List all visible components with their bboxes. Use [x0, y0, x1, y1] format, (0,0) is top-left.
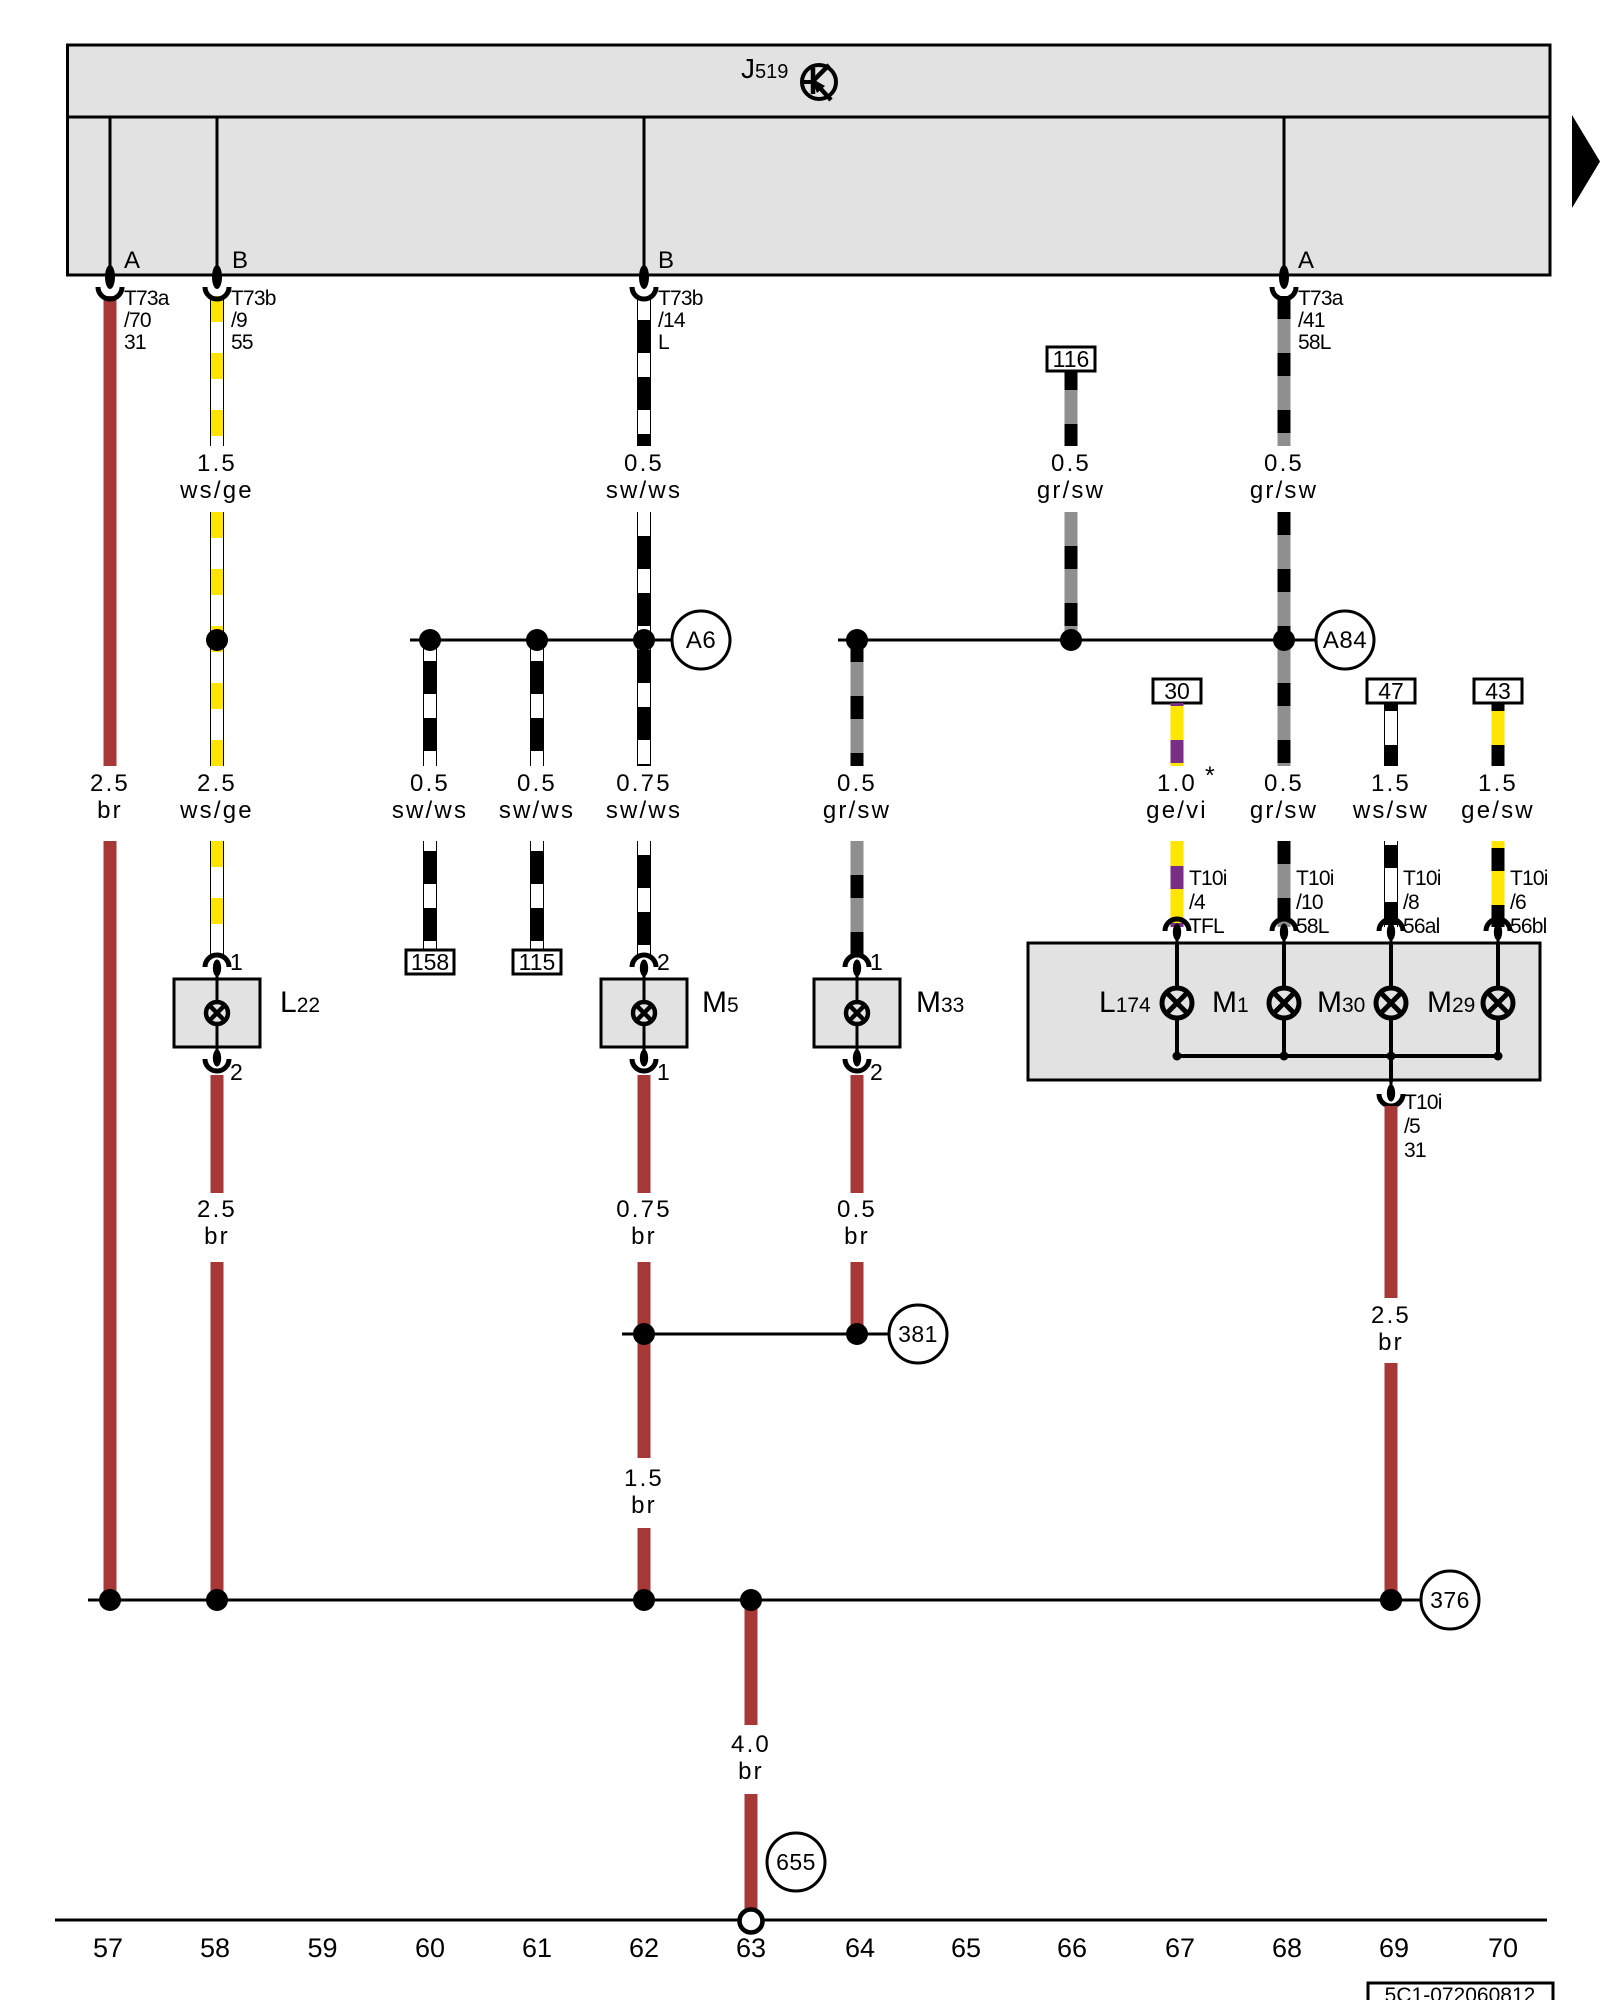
lamp symbol M29 brake light [1483, 988, 1513, 1018]
svg-text:2.5: 2.5 [197, 1196, 237, 1223]
svg-text:/10: /10 [1296, 891, 1323, 914]
svg-text:56bl: 56bl [1510, 915, 1547, 938]
ground reference circle 655 [767, 1833, 825, 1891]
diagram code box 5C1-072060812 [1368, 1983, 1553, 2005]
wire 2.5 br col69 lower [1385, 1363, 1398, 1600]
internal lead x=1177 [1175, 943, 1179, 1056]
svg-text:T10i: T10i [1189, 867, 1227, 890]
svg-text:ws/ge: ws/ge [179, 477, 254, 504]
internal lead x=1391 [1389, 943, 1393, 1056]
wire br col62 through 381 [638, 1262, 651, 1458]
svg-text:115: 115 [519, 949, 556, 975]
label T10i /10 58L [1296, 867, 1334, 938]
continuation arrow right [1572, 115, 1600, 208]
svg-text:64: 64 [845, 1933, 875, 1963]
wire 2.5 br col57 lower [104, 841, 117, 1600]
junction dot A6 at col60 [419, 629, 441, 651]
wire 4.0 br upper [745, 1600, 758, 1725]
junction dot A6 at col62 [633, 629, 655, 651]
label T10i /6 56bl [1510, 867, 1548, 938]
svg-text:br: br [97, 797, 123, 824]
svg-text:70: 70 [1488, 1933, 1518, 1963]
internal lead M5 [643, 979, 646, 1047]
svg-text:56al: 56al [1403, 915, 1440, 938]
svg-text:br: br [631, 1492, 657, 1519]
lamp symbol M33 [846, 1002, 868, 1024]
internal lead L22 [216, 979, 219, 1047]
wire 0.5 br to node 381 [851, 1262, 864, 1334]
label 2.5 br col57 [90, 770, 130, 824]
label 0.75 br [616, 1196, 672, 1250]
svg-text:T10i: T10i [1510, 867, 1548, 890]
junction dot A6 at col61 [526, 629, 548, 651]
wire destination box 158 [406, 949, 454, 975]
junction dot 376 col69 (redraw over wire) [1380, 1589, 1402, 1611]
svg-text:/9: /9 [231, 309, 247, 332]
J519 pin line A x=1284 [1283, 117, 1286, 275]
internal lead x=1284 [1282, 943, 1286, 1056]
node line 381 [622, 1333, 889, 1336]
label 2.5 ws/ge [179, 770, 254, 824]
wire source box 30 [1153, 678, 1201, 704]
svg-text:376: 376 [1430, 1587, 1470, 1613]
connector T10i/10 58L [1272, 919, 1296, 943]
label 2.5 br col58 [197, 1196, 237, 1250]
connector T73a/41 pin 58L [1272, 265, 1296, 299]
svg-text:58L: 58L [1298, 331, 1331, 354]
svg-text:58: 58 [200, 1933, 230, 1963]
svg-text:A6: A6 [686, 627, 716, 654]
svg-text:A84: A84 [1323, 627, 1367, 654]
wire destination box 115 [513, 949, 561, 975]
svg-text:1.5: 1.5 [1478, 770, 1518, 797]
svg-text:68: 68 [1272, 1933, 1302, 1963]
label 1.0 ge/vi [1146, 770, 1208, 824]
svg-text:0.75: 0.75 [616, 770, 672, 797]
svg-text:1: 1 [230, 949, 243, 975]
connector pin 2 bottom of M33 [845, 1047, 869, 1071]
svg-text:A: A [1298, 247, 1314, 274]
label 0.5 sw/ws col61 [499, 770, 575, 824]
label T73a /70 31 [124, 287, 170, 354]
svg-text:66: 66 [1057, 1933, 1087, 1963]
svg-text:0.5: 0.5 [1051, 450, 1091, 477]
junction dot 376 at x=751 [740, 1589, 762, 1611]
tail lamp cluster box L174 M1 M30 M29 [1028, 943, 1540, 1080]
svg-text:B: B [232, 247, 248, 274]
internal lead x=1498 [1496, 943, 1500, 1056]
svg-text:1: 1 [657, 1059, 670, 1085]
svg-text:ge/sw: ge/sw [1461, 797, 1535, 824]
wire 1.5 br col62 lower [638, 1528, 651, 1600]
wire 2.5 br from T73a/70 [104, 296, 117, 766]
svg-text:ws/sw: ws/sw [1352, 797, 1429, 824]
svg-text:0.5: 0.5 [1264, 770, 1304, 797]
label T10i /5 31 [1404, 1091, 1442, 1162]
svg-text:T73a: T73a [1298, 287, 1344, 310]
svg-text:ws/ge: ws/ge [179, 797, 254, 824]
svg-text:0.5: 0.5 [837, 770, 877, 797]
label 0.5 sw/ws col60 [392, 770, 468, 824]
svg-text:0.5: 0.5 [1264, 450, 1304, 477]
wire 2.5 br from T10i/5 [1385, 1106, 1398, 1298]
svg-text:0.5: 0.5 [837, 1196, 877, 1223]
junction dot 381 at col64 [846, 1323, 868, 1345]
svg-text:L: L [658, 331, 669, 354]
wire source box 43 [1474, 678, 1522, 704]
svg-text:47: 47 [1378, 678, 1404, 704]
lamp box L22 [174, 979, 260, 1047]
label 0.5 br col64 [837, 1196, 877, 1250]
svg-text:69: 69 [1379, 1933, 1409, 1963]
svg-text:30: 30 [1164, 678, 1190, 704]
svg-text:57: 57 [93, 1933, 123, 1963]
svg-text:2.5: 2.5 [90, 770, 130, 797]
label 1.5 br col62 [624, 1465, 664, 1519]
svg-text:M5: M5 [702, 986, 739, 1019]
svg-text:br: br [631, 1223, 657, 1250]
node circle A84 [1316, 611, 1374, 669]
connector pin 2 bottom of L22 [205, 1047, 229, 1071]
junction dot 376 at x=1391 [1380, 1589, 1402, 1611]
svg-text:59: 59 [307, 1933, 337, 1963]
svg-text:58L: 58L [1296, 915, 1329, 938]
label 1.5 ws/sw [1352, 770, 1429, 824]
label 0.5 gr/sw col68 lower [1250, 770, 1318, 824]
label 1.5 ws/ge [179, 450, 254, 504]
connector T10i/8 56al [1379, 919, 1403, 943]
svg-text:sw/ws: sw/ws [606, 797, 682, 824]
svg-text:1.5: 1.5 [624, 1465, 664, 1492]
svg-text:1.5: 1.5 [197, 450, 237, 477]
label 0.5 gr/sw col64 [823, 770, 891, 824]
svg-text:T10i: T10i [1404, 1091, 1442, 1114]
svg-text:L22: L22 [280, 986, 320, 1019]
internal junction dot x=1177 [1173, 1052, 1182, 1061]
label 0.75 sw/ws [606, 770, 682, 824]
svg-text:1.0: 1.0 [1157, 770, 1197, 797]
svg-text:0.75: 0.75 [616, 1196, 672, 1223]
svg-text:br: br [1378, 1329, 1404, 1356]
label 0.5 gr/sw col66 [1037, 450, 1105, 504]
svg-text:TFL: TFL [1189, 915, 1224, 938]
junction dot 381 at col62 [633, 1323, 655, 1345]
svg-text:T10i: T10i [1403, 867, 1441, 890]
svg-text:61: 61 [522, 1933, 552, 1963]
svg-text:31: 31 [1404, 1139, 1426, 1162]
svg-text:A: A [124, 247, 140, 274]
connector pin 1 top of L22 [205, 955, 229, 979]
J519 internal divider line [68, 116, 1551, 119]
svg-text:sw/ws: sw/ws [499, 797, 575, 824]
internal junction dot x=1498 [1494, 1052, 1503, 1061]
svg-text:2: 2 [657, 949, 670, 975]
connector pin 2 top of M5 [632, 955, 656, 979]
svg-text:M33: M33 [916, 986, 964, 1019]
svg-text:gr/sw: gr/sw [1250, 477, 1318, 504]
svg-text:0.5: 0.5 [410, 770, 450, 797]
svg-text:/8: /8 [1403, 891, 1419, 914]
svg-text:B: B [658, 247, 674, 274]
lamp box M33 [814, 979, 900, 1047]
label T73a /41 58L [1298, 287, 1344, 354]
svg-text:/4: /4 [1189, 891, 1206, 914]
svg-text:0.5: 0.5 [517, 770, 557, 797]
lamp symbol M1 side light [1269, 988, 1299, 1018]
svg-text:sw/ws: sw/ws [606, 477, 682, 504]
junction dot 376 at x=217 [206, 1589, 228, 1611]
svg-text:2.5: 2.5 [1371, 1302, 1411, 1329]
node line 376 ground connection [88, 1599, 1421, 1602]
junction dot A84 at col68 [1273, 629, 1295, 651]
svg-text:158: 158 [411, 949, 449, 975]
K diagnostic symbol [802, 65, 836, 100]
svg-text:1.5: 1.5 [1371, 770, 1411, 797]
internal lead to pin T10i/5 [1389, 1056, 1393, 1082]
svg-text:/6: /6 [1510, 891, 1526, 914]
node line A84 [838, 639, 1316, 642]
svg-text:67: 67 [1165, 1933, 1195, 1963]
wire 4.0 br to ground 655 [745, 1794, 758, 1912]
label 2.5 br col69 [1371, 1302, 1411, 1356]
J519 pin line B x=217 [216, 117, 219, 275]
svg-text:31: 31 [124, 331, 146, 354]
internal bus line [1177, 1054, 1498, 1058]
svg-text:63: 63 [736, 1933, 766, 1963]
svg-text:/5: /5 [1404, 1115, 1420, 1138]
J519 pin line B x=644 [643, 117, 646, 275]
svg-text:T73b: T73b [658, 287, 703, 310]
label 0.5 sw/ws col62 [606, 450, 682, 504]
J519 pin line A x=110 [109, 117, 112, 275]
svg-text:62: 62 [629, 1933, 659, 1963]
svg-text:43: 43 [1485, 678, 1511, 704]
label 4.0 br [731, 1731, 771, 1785]
svg-text:gr/sw: gr/sw [1250, 797, 1318, 824]
node circle 381 [889, 1305, 947, 1363]
svg-text:1: 1 [870, 949, 883, 975]
svg-text:sw/ws: sw/ws [392, 797, 468, 824]
svg-text:br: br [204, 1223, 230, 1250]
lamp symbol M5 [633, 1002, 655, 1024]
lamp box M5 [601, 979, 687, 1047]
svg-text:br: br [738, 1758, 764, 1785]
connector T10i/6 56bl [1486, 919, 1510, 943]
wire 0.75 br from M5 [638, 1075, 651, 1193]
svg-text:5C1-072060812: 5C1-072060812 [1385, 1984, 1536, 2000]
svg-text:T10i: T10i [1296, 867, 1334, 890]
svg-text:*: * [1205, 762, 1215, 790]
svg-text:65: 65 [951, 1933, 981, 1963]
junction dot A84 at col64 [846, 629, 868, 651]
connector T73b/14 pin L [632, 265, 656, 299]
svg-text:/41: /41 [1298, 309, 1325, 332]
junction dot 376 at x=644 [633, 1589, 655, 1611]
svg-text:2: 2 [230, 1059, 243, 1085]
svg-text:/14: /14 [658, 309, 686, 332]
svg-text:gr/sw: gr/sw [823, 797, 891, 824]
connector pin 1 bottom of M5 [632, 1047, 656, 1071]
svg-text:55: 55 [231, 331, 253, 354]
ground rail bottom line [55, 1919, 1547, 1922]
connector T73a/70 pin 31 [98, 265, 122, 299]
svg-text:T73b: T73b [231, 287, 276, 310]
lamp symbol L174 tail light [1162, 988, 1192, 1018]
junction dot 376 at x=110 [99, 1589, 121, 1611]
label T10i /8 56al [1403, 867, 1441, 938]
control unit J519 onboard supply control unit box [68, 45, 1551, 275]
svg-text:2.5: 2.5 [197, 770, 237, 797]
svg-text:T73a: T73a [124, 287, 170, 310]
internal junction dot x=1391 [1387, 1052, 1396, 1061]
internal lead M33 [856, 979, 859, 1047]
svg-text:/70: /70 [124, 309, 151, 332]
wire source box 47 [1367, 678, 1415, 704]
junction dot splice col58 [206, 629, 228, 651]
node circle A6 [672, 611, 730, 669]
svg-text:655: 655 [776, 1849, 816, 1875]
svg-text:ge/vi: ge/vi [1146, 797, 1208, 824]
connector T73b/9 pin 55 [205, 265, 229, 299]
label T73b /9 55 [231, 287, 276, 354]
label T10i /4 TFL [1189, 867, 1227, 938]
connector T10i/5 pin 31 [1379, 1082, 1403, 1106]
node circle 376 [1421, 1571, 1479, 1629]
svg-text:2: 2 [870, 1059, 883, 1085]
connector T10i/4 TFL [1165, 919, 1189, 943]
connector pin 1 top of M33 [845, 955, 869, 979]
svg-text:br: br [844, 1223, 870, 1250]
lamp symbol M30 brake/tail [1376, 988, 1406, 1018]
lamp symbol L22 [206, 1002, 228, 1024]
node line A6 [410, 639, 672, 642]
svg-text:116: 116 [1053, 346, 1090, 372]
junction dot A84 at col66 [1060, 629, 1082, 651]
label T73b /14 L [658, 287, 703, 354]
wire source box 116 [1047, 346, 1095, 372]
svg-text:60: 60 [415, 1933, 445, 1963]
svg-text:4.0: 4.0 [731, 1731, 771, 1758]
internal junction dot x=1284 [1280, 1052, 1289, 1061]
svg-text:gr/sw: gr/sw [1037, 477, 1105, 504]
ground terminal ring 63 [740, 1910, 763, 1933]
svg-text:381: 381 [898, 1321, 938, 1347]
label 1.5 ge/sw [1461, 770, 1535, 824]
svg-text:0.5: 0.5 [624, 450, 664, 477]
label 0.5 gr/sw col68 upper [1250, 450, 1318, 504]
wire 0.5 br from M33 [851, 1075, 864, 1193]
wire 2.5 br from L22 [211, 1075, 224, 1193]
wire 2.5 br col58 lower [211, 1262, 224, 1600]
